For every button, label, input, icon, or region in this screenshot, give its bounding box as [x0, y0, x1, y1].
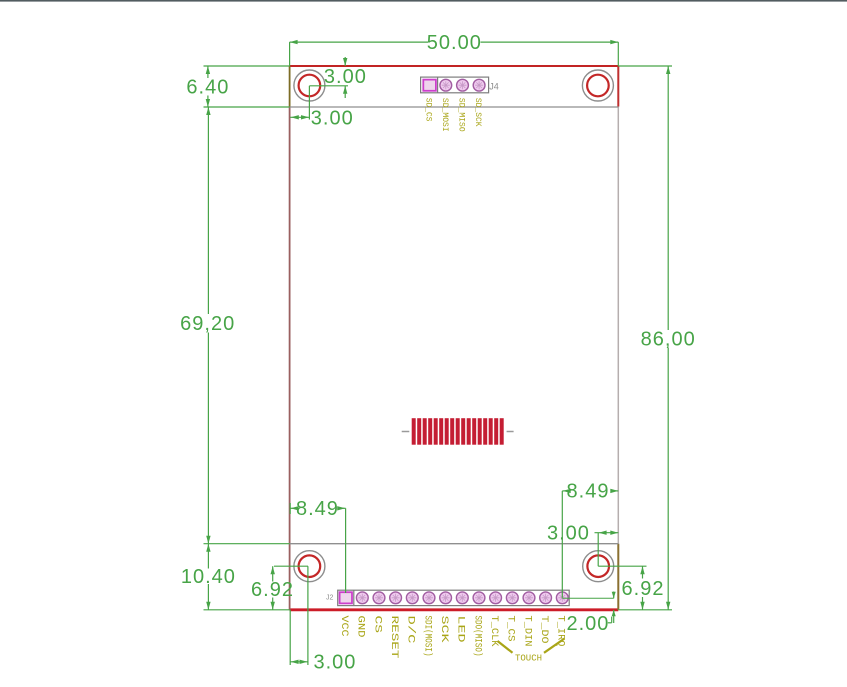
dimension 3.00 left dimension line — [290, 115, 309, 119]
svg-text:SD_SCK: SD_SCK — [473, 98, 483, 127]
connector J2 outline — [338, 590, 570, 605]
dimension 6.92 right extension line at hole center — [598, 565, 646, 567]
dimension 8.49 left extension line at board edge — [289, 503, 291, 514]
dimension 3.00 bottom dimension line — [290, 660, 308, 664]
board outline left edge (upper band) — [289, 66, 291, 107]
dimension 69,20 line — [206, 107, 210, 544]
dimension 6.92 left dimension line — [271, 566, 275, 610]
svg-text:J2: J2 — [326, 595, 334, 602]
dimension 86,00 line — [666, 66, 670, 610]
dimension 86,00 extension line top — [618, 65, 672, 67]
svg-text:SCK: SCK — [438, 616, 449, 643]
board outline right edge (lower band) — [617, 544, 619, 610]
crystal lead left — [402, 431, 410, 433]
svg-text:SD_CS: SD_CS — [424, 98, 434, 122]
connector J2 pin 6 round pad — [423, 592, 435, 604]
svg-text:3.00: 3.00 — [547, 522, 590, 544]
svg-text:T_DIN: T_DIN — [521, 616, 532, 647]
dimension 8.49 right extension line to pad — [561, 491, 563, 598]
dimension 69,20 extension line bottom — [204, 543, 290, 545]
svg-text:6.40: 6.40 — [186, 77, 229, 99]
dimension 86,00 extension line bottom — [618, 609, 672, 611]
connector J4 pin 4 round pad — [473, 79, 485, 91]
silkscreen line top — [290, 106, 619, 108]
svg-text:RESET: RESET — [388, 616, 399, 659]
svg-text:3.00: 3.00 — [311, 108, 354, 130]
connector J2 pin 3 round pad — [373, 592, 385, 604]
dimension 10.40 line — [206, 544, 210, 610]
dimension 3.00 right extension line at hole center — [597, 533, 599, 567]
board outline left edge — [289, 107, 291, 610]
connector J2 pin 8 round pad — [456, 592, 468, 604]
dimension 6.40 line — [206, 66, 210, 107]
silkscreen line bottom — [290, 543, 619, 545]
dimension 6.40 extension line top — [204, 65, 290, 67]
dimension 8.49 right dimension line — [562, 489, 618, 493]
connector J2 pin 12 round pad — [523, 592, 535, 604]
crystal footprint hatched pad — [412, 418, 504, 445]
svg-text:3.00: 3.00 — [314, 652, 357, 674]
svg-text:SDI(MOSI): SDI(MOSI) — [421, 616, 433, 657]
connector J2 pin 14 round pad — [556, 592, 568, 604]
connector J2 pin 5 round pad — [406, 592, 418, 604]
svg-text:D/C: D/C — [405, 616, 417, 644]
dimension 8.49 left dimension line — [290, 506, 345, 510]
svg-text:TOUCH: TOUCH — [515, 654, 542, 664]
connector J4 pin 2 round pad — [440, 79, 452, 91]
mounting hole bottom-right — [583, 551, 614, 582]
svg-text:6.92: 6.92 — [251, 579, 294, 601]
dimension 3.00 top extension line at hole center — [309, 85, 348, 87]
connector J2 pin 13 round pad — [540, 592, 552, 604]
dimension 2.00 leader elbow — [608, 617, 612, 623]
dimension 3.00 bottom extension line at board edge — [289, 610, 291, 665]
connector J2 pin 1 square pad — [340, 592, 352, 603]
svg-text:69,20: 69,20 — [180, 313, 235, 335]
svg-text:SDO(MISO): SDO(MISO) — [471, 616, 483, 657]
TOUCH leader line left — [498, 641, 513, 653]
svg-text:GND: GND — [355, 616, 366, 638]
connector J2 pin 10 round pad — [490, 592, 502, 604]
dimension 6.92 left extension line at hole center — [274, 565, 308, 567]
connector J4 pin 1 square pad — [423, 80, 436, 91]
connector J2 pin 11 round pad — [506, 592, 518, 604]
dimension 69,20 extension line top — [204, 106, 290, 108]
TOUCH leader line right — [544, 639, 565, 653]
svg-text:T_DO: T_DO — [538, 616, 549, 644]
board outline right edge (middle) — [617, 107, 619, 544]
svg-text:LED: LED — [455, 616, 466, 643]
dimension 2.00 dimension line — [612, 592, 616, 624]
connector J4 outline — [421, 77, 489, 93]
svg-text:50.00: 50.00 — [427, 32, 482, 54]
dimension 50.00 extension line left — [289, 42, 291, 66]
board outline right edge (upper band) — [617, 66, 619, 107]
dimension 6.92 right dimension line — [640, 566, 644, 610]
svg-text:VCC: VCC — [338, 616, 349, 637]
svg-text:T_CS: T_CS — [505, 616, 516, 642]
svg-text:86,00: 86,00 — [641, 328, 696, 350]
dimension 3.00 bottom extension line at hole center — [307, 566, 309, 665]
board outline bottom edge — [290, 608, 619, 611]
mounting hole top-right — [582, 70, 613, 101]
svg-text:6.92: 6.92 — [622, 578, 665, 600]
svg-text:CS: CS — [371, 616, 382, 634]
page top border line — [0, 0, 847, 2]
connector J4 pin 3 round pad — [457, 79, 469, 91]
dimension 8.49 left extension line to pad — [345, 508, 347, 593]
svg-text:10.40: 10.40 — [181, 566, 236, 588]
dimension 3.00 right dimension line — [595, 531, 619, 535]
dimension 2.00 extension line at pad center — [562, 597, 613, 599]
dimension 3.00 top vertical line — [343, 57, 347, 98]
svg-text:2.00: 2.00 — [567, 613, 610, 635]
crystal lead right — [507, 431, 514, 433]
svg-text:8.49: 8.49 — [296, 498, 339, 520]
connector J2 pin 4 round pad — [390, 592, 402, 604]
svg-text:SD_MISO: SD_MISO — [457, 98, 467, 132]
connector J2 pin 7 round pad — [440, 592, 452, 604]
mounting hole top-left — [294, 70, 325, 101]
svg-text:3.00: 3.00 — [324, 66, 367, 88]
dimension 50.00 extension line right — [617, 42, 619, 66]
dimension 10.40 extension line bottom — [204, 609, 290, 611]
mounting hole bottom-left — [294, 551, 325, 582]
connector J2 pin 2 round pad — [356, 592, 368, 604]
svg-text:SD_MOSI: SD_MOSI — [440, 98, 450, 132]
svg-text:J4: J4 — [489, 81, 499, 91]
dimension 3.00 left extension line at hole center — [308, 86, 310, 120]
dimension 50.00 line — [290, 40, 619, 44]
connector J2 pin 9 round pad — [473, 592, 485, 604]
svg-text:8.49: 8.49 — [567, 481, 610, 503]
board outline top edge — [290, 65, 619, 67]
